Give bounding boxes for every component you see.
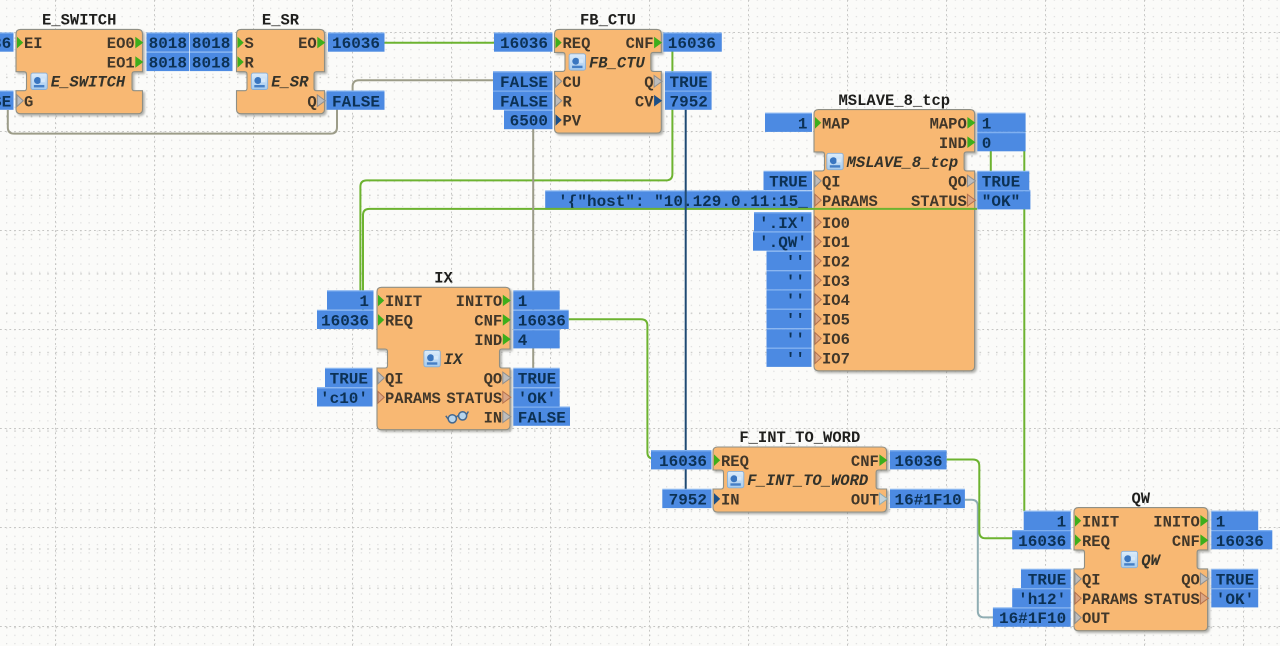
svg-text:IO4: IO4	[822, 292, 850, 310]
svg-text:REQ: REQ	[721, 453, 749, 471]
value label E_SR.Q = FALSE	[327, 91, 385, 111]
svg-text:1: 1	[982, 115, 992, 133]
input pin IO0 of MSLAVE_8_tcp	[815, 215, 850, 233]
value label MSLAVE_8_tcp.IO1 = '.QW'	[753, 232, 812, 252]
wire F_INT_TO_WORD.OUT to QW.OUT	[965, 500, 994, 618]
input pin MAP of MSLAVE_8_tcp	[815, 115, 850, 133]
svg-text:16036: 16036	[0, 35, 11, 53]
value label QW.QO = TRUE	[1211, 569, 1258, 589]
wire FB_CTU.CNF to IX.INIT	[360, 51, 672, 291]
svg-text:REQ: REQ	[563, 35, 591, 53]
svg-text:IO3: IO3	[822, 273, 850, 291]
svg-text:PARAMS: PARAMS	[385, 390, 441, 408]
input pin QI of QW	[1075, 572, 1101, 590]
value label MSLAVE_8_tcp.IO5 = ''	[767, 309, 812, 329]
wire FB_CTU.PV to IX.QO	[532, 129, 534, 369]
value label QW.STATUS = 'OK'	[1211, 589, 1258, 609]
value label QW.INITO = 1	[1211, 511, 1258, 531]
svg-text:G: G	[24, 93, 33, 111]
svg-text:INITO: INITO	[456, 293, 503, 311]
input pin G of E_SWITCH	[17, 93, 33, 111]
svg-text:IO2: IO2	[822, 254, 850, 272]
svg-text:E_SWITCH: E_SWITCH	[51, 74, 126, 92]
svg-text:R: R	[245, 55, 255, 73]
svg-text:FALSE: FALSE	[500, 74, 548, 92]
svg-text:'': ''	[786, 292, 805, 310]
svg-text:16#1F10: 16#1F10	[999, 610, 1066, 628]
svg-text:TRUE: TRUE	[330, 371, 368, 389]
value label QW.QI = TRUE	[1021, 569, 1071, 589]
wire E_SR.Q to E_SWITCH.G (down-left loop)	[8, 110, 337, 134]
output pin QO of QW	[1181, 572, 1208, 590]
svg-text:8018: 8018	[149, 35, 187, 53]
svg-text:QI: QI	[822, 174, 841, 192]
output pin CNF of QW	[1172, 533, 1209, 551]
svg-text:7952: 7952	[670, 93, 708, 111]
value label MSLAVE_8_tcp.IO0 = '.IX'	[754, 213, 812, 233]
value label QW.CNF = 16036	[1211, 531, 1272, 551]
value label MSLAVE_8_tcp.QI = TRUE	[764, 171, 813, 191]
wire MSLAVE.PARAMS net horizontal to IX.REQ	[363, 209, 977, 311]
input pin IO1 of MSLAVE_8_tcp	[815, 234, 850, 252]
input pin CU of FB_CTU	[556, 74, 582, 92]
svg-text:TRUE: TRUE	[518, 371, 556, 389]
value label MSLAVE_8_tcp.QO = TRUE	[977, 171, 1029, 191]
svg-text:16036: 16036	[668, 35, 716, 53]
input pin S of E_SR	[238, 35, 254, 53]
input pin PV of FB_CTU	[556, 113, 582, 131]
svg-text:STATUS: STATUS	[1144, 591, 1200, 609]
svg-text:7952: 7952	[669, 492, 707, 510]
svg-text:QI: QI	[385, 371, 404, 389]
input pin IO7 of MSLAVE_8_tcp	[815, 350, 850, 368]
function block QW	[1074, 490, 1208, 631]
svg-text:'c10': 'c10'	[320, 390, 368, 408]
output pin Q of E_SR	[307, 93, 325, 111]
value label MSLAVE_8_tcp.IO2 = ''	[767, 251, 812, 271]
svg-text:16036: 16036	[321, 313, 369, 331]
svg-text:16036: 16036	[1216, 533, 1264, 551]
input pin REQ of IX	[378, 313, 413, 331]
svg-text:CU: CU	[563, 74, 582, 92]
svg-text:'': ''	[786, 254, 805, 272]
value label MSLAVE_8_tcp.STATUS = "OK"	[977, 191, 1030, 211]
svg-text:1: 1	[359, 293, 369, 311]
value label IX.STATUS = 'OK'	[513, 388, 559, 408]
svg-text:EO0: EO0	[107, 35, 135, 53]
svg-text:TRUE: TRUE	[769, 174, 807, 192]
output pin INITO of QW	[1153, 513, 1208, 531]
svg-text:TRUE: TRUE	[982, 174, 1020, 192]
value label FB_CTU.PV = 6500	[504, 110, 553, 130]
svg-text:IO7: IO7	[822, 350, 850, 368]
input pin INIT of QW	[1075, 513, 1119, 531]
output pin EO1 of E_SWITCH	[107, 55, 144, 73]
svg-text:IO1: IO1	[822, 234, 850, 252]
value label E_SR.S = 8018	[190, 33, 233, 53]
wire E_SR.Q branch to FB_CTU.CU	[353, 80, 494, 92]
output pin CNF of F_INT_TO_WORD	[851, 453, 888, 471]
svg-text:TRUE: TRUE	[1028, 572, 1066, 590]
function block E_SWITCH	[16, 12, 143, 114]
input pin PARAMS of IX	[378, 390, 441, 408]
function block E_SR	[237, 12, 325, 114]
svg-text:'h12': 'h12'	[1018, 591, 1066, 609]
svg-text:E_SWITCH: E_SWITCH	[42, 12, 116, 30]
svg-text:OUT: OUT	[851, 492, 879, 510]
value label F_INT_TO_WORD.CNF = 16036	[890, 451, 947, 471]
output pin QO of IX	[484, 371, 511, 389]
svg-text:1: 1	[1216, 513, 1226, 531]
value label F_INT_TO_WORD.OUT = 16#1F10	[890, 489, 965, 509]
svg-text:F_INT_TO_WORD: F_INT_TO_WORD	[739, 429, 860, 447]
input pin IO2 of MSLAVE_8_tcp	[815, 254, 850, 272]
output pin OUT of F_INT_TO_WORD	[851, 492, 888, 510]
svg-text:INITO: INITO	[1153, 513, 1200, 531]
input pin R of FB_CTU	[556, 93, 573, 111]
output pin IN of IX	[484, 409, 511, 427]
value label MSLAVE_8_tcp.IO3 = ''	[767, 271, 812, 291]
svg-text:QO: QO	[948, 174, 967, 192]
svg-text:MAP: MAP	[822, 115, 850, 133]
output pin IND of IX	[474, 332, 511, 350]
svg-text:F_INT_TO_WORD: F_INT_TO_WORD	[747, 472, 869, 490]
wire IX.CNF to F_INT_TO_WORD.REQ	[569, 319, 656, 458]
value label IX.PARAMS = 'c10'	[317, 388, 373, 408]
svg-text:'': ''	[786, 312, 805, 330]
svg-text:R: R	[563, 93, 573, 111]
svg-text:REQ: REQ	[1082, 533, 1110, 551]
output pin STATUS of IX	[446, 390, 510, 408]
output pin STATUS of MSLAVE_8_tcp	[911, 193, 975, 211]
value label FB_CTU.R = FALSE	[493, 91, 553, 111]
value label MSLAVE_8_tcp.IND = 0	[977, 133, 1025, 153]
svg-text:MSLAVE_8_tcp: MSLAVE_8_tcp	[838, 92, 950, 110]
svg-text:OUT: OUT	[1082, 610, 1110, 628]
function block FB_CTU	[555, 12, 662, 134]
svg-text:S: S	[245, 35, 254, 53]
input pin PARAMS of MSLAVE_8_tcp	[815, 193, 878, 211]
wire FB_CTU.CV to F_INT_TO_WORD.IN	[685, 110, 687, 491]
svg-text:IN: IN	[484, 409, 503, 427]
svg-text:16036: 16036	[332, 35, 380, 53]
svg-text:16036: 16036	[1018, 533, 1066, 551]
value label E_SWITCH.EO0 = 8018	[147, 33, 190, 53]
input pin PARAMS of QW	[1075, 591, 1138, 609]
svg-text:PV: PV	[563, 113, 582, 131]
output pin CV of FB_CTU	[635, 93, 662, 111]
function block MSLAVE_8_tcp	[814, 92, 975, 371]
svg-text:CV: CV	[635, 93, 654, 111]
svg-text:'': ''	[786, 350, 805, 368]
value label E_SWITCH.EI = 16036	[0, 33, 14, 53]
output pin MAPO of MSLAVE_8_tcp	[930, 115, 976, 133]
input pin IO5 of MSLAVE_8_tcp	[815, 312, 850, 330]
svg-text:'.QW': '.QW'	[759, 234, 807, 252]
wire MSLAVE.IND stub	[990, 141, 992, 180]
input pin IN of F_INT_TO_WORD	[714, 492, 740, 510]
svg-text:16036: 16036	[518, 313, 566, 331]
value label MSLAVE_8_tcp.MAPO = 1	[977, 113, 1025, 133]
svg-text:'.IX': '.IX'	[759, 215, 807, 233]
output pin QO of MSLAVE_8_tcp	[948, 174, 975, 192]
svg-text:16#1F10: 16#1F10	[895, 492, 962, 510]
svg-text:8018: 8018	[192, 55, 230, 73]
svg-text:CNF: CNF	[626, 35, 654, 53]
input pin REQ of QW	[1075, 533, 1110, 551]
svg-text:QW: QW	[1141, 552, 1161, 570]
input pin IO3 of MSLAVE_8_tcp	[815, 273, 850, 291]
output pin IND of MSLAVE_8_tcp	[939, 135, 976, 153]
svg-text:STATUS: STATUS	[446, 390, 502, 408]
svg-text:IO6: IO6	[822, 331, 850, 349]
svg-text:IND: IND	[939, 135, 967, 153]
value label E_SWITCH.G = FALSE	[0, 91, 14, 111]
svg-text:6500: 6500	[510, 113, 548, 131]
value label IX.QI = TRUE	[325, 368, 373, 388]
svg-text:IND: IND	[474, 332, 502, 350]
svg-text:QO: QO	[1181, 572, 1200, 590]
value label IX.INITO = 1	[513, 291, 559, 311]
input pin IO4 of MSLAVE_8_tcp	[815, 292, 850, 310]
svg-text:16036: 16036	[895, 453, 943, 471]
svg-text:4: 4	[518, 332, 528, 350]
svg-text:"OK": "OK"	[982, 193, 1020, 211]
svg-text:16036: 16036	[500, 35, 548, 53]
svg-text:FALSE: FALSE	[518, 409, 566, 427]
value label F_INT_TO_WORD.IN = 7952	[662, 489, 711, 509]
svg-text:PARAMS: PARAMS	[1082, 591, 1138, 609]
input pin INIT of IX	[378, 293, 422, 311]
svg-text:CNF: CNF	[851, 453, 879, 471]
function block IX	[377, 270, 510, 430]
svg-text:QO: QO	[484, 371, 503, 389]
svg-text:IX: IX	[444, 351, 464, 369]
svg-text:1: 1	[1057, 513, 1067, 531]
svg-text:0: 0	[982, 135, 992, 153]
value label FB_CTU.CU = FALSE	[493, 72, 553, 92]
svg-text:'': ''	[786, 331, 805, 349]
value label IX.IN = FALSE	[513, 407, 570, 427]
function block F_INT_TO_WORD	[713, 429, 887, 512]
value label IX.CNF = 16036	[513, 310, 568, 330]
value label IX.REQ = 16036	[317, 310, 374, 330]
svg-text:1: 1	[798, 115, 808, 133]
output pin CNF of FB_CTU	[626, 35, 663, 53]
svg-text:'OK': 'OK'	[1216, 591, 1254, 609]
output pin STATUS of QW	[1144, 591, 1208, 609]
output pin INITO of IX	[456, 293, 511, 311]
svg-text:1: 1	[518, 293, 528, 311]
svg-text:FB_CTU: FB_CTU	[589, 54, 646, 72]
svg-text:8018: 8018	[149, 55, 187, 73]
svg-text:TRUE: TRUE	[670, 74, 708, 92]
value label E_SR.EO = 16036	[328, 33, 385, 53]
value label QW.PARAMS = 'h12'	[1012, 589, 1070, 609]
output pin CNF of IX	[474, 313, 511, 331]
value label F_INT_TO_WORD.REQ = 16036	[651, 451, 712, 471]
svg-text:CNF: CNF	[474, 313, 502, 331]
output pin EO of E_SR	[298, 35, 325, 53]
value label FB_CTU.Q = TRUE	[665, 72, 712, 92]
svg-text:REQ: REQ	[385, 313, 413, 331]
wire MSLAVE.STATUS to QW.INIT	[1023, 132, 1025, 512]
svg-text:EI: EI	[24, 35, 43, 53]
svg-text:TRUE: TRUE	[1216, 572, 1254, 590]
svg-text:PARAMS: PARAMS	[822, 193, 878, 211]
value label FB_CTU.CV = 7952	[665, 91, 712, 111]
svg-text:'OK': 'OK'	[518, 390, 556, 408]
svg-text:IO5: IO5	[822, 312, 850, 330]
svg-text:IO0: IO0	[822, 215, 850, 233]
value label MSLAVE_8_tcp.MAP = 1	[765, 113, 812, 133]
svg-text:MAPO: MAPO	[930, 115, 967, 133]
svg-text:E_SR: E_SR	[262, 12, 300, 30]
value label IX.IND = 4	[513, 330, 559, 350]
svg-text:INIT: INIT	[385, 293, 422, 311]
svg-text:8018: 8018	[192, 35, 230, 53]
wire E_SR.EO to FB_CTU.REQ	[385, 42, 495, 44]
svg-text:QW: QW	[1131, 490, 1150, 508]
output pin EO0 of E_SWITCH	[107, 35, 144, 53]
output pin Q of FB_CTU	[644, 74, 662, 92]
svg-text:QI: QI	[1082, 572, 1101, 590]
input pin QI of IX	[378, 371, 404, 389]
value label E_SR.R = 8018	[190, 52, 233, 72]
input pin QI of MSLAVE_8_tcp	[815, 174, 841, 192]
input pin REQ of FB_CTU	[556, 35, 591, 53]
svg-text:Q: Q	[644, 74, 653, 92]
svg-text:EO1: EO1	[107, 55, 135, 73]
wire F_INT_TO_WORD.CNF to QW.REQ	[947, 460, 1013, 539]
value label FB_CTU.REQ = 16036	[494, 33, 553, 53]
svg-text:16036: 16036	[659, 453, 707, 471]
input pin EI of E_SWITCH	[17, 35, 43, 53]
input pin R of E_SR	[238, 55, 255, 73]
svg-text:FALSE: FALSE	[500, 93, 548, 111]
svg-text:E_SR: E_SR	[271, 74, 309, 92]
svg-text:'': ''	[786, 273, 805, 291]
svg-text:FALSE: FALSE	[332, 93, 380, 111]
svg-text:IX: IX	[434, 270, 453, 288]
value label QW.REQ = 16036	[1012, 531, 1070, 551]
value label MSLAVE_8_tcp.PARAMS value	[545, 191, 812, 211]
input pin REQ of F_INT_TO_WORD	[714, 453, 749, 471]
svg-text:MSLAVE_8_tcp: MSLAVE_8_tcp	[846, 154, 959, 172]
value label MSLAVE_8_tcp.IO7 = ''	[767, 348, 812, 368]
svg-text:STATUS: STATUS	[911, 193, 967, 211]
value label E_SWITCH.EO1 = 8018	[147, 52, 190, 72]
svg-text:FALSE: FALSE	[0, 93, 11, 111]
value label IX.INIT = 1	[327, 291, 374, 311]
svg-text:Q: Q	[307, 93, 316, 111]
value label QW.INIT = 1	[1024, 511, 1071, 531]
value label FB_CTU.CNF = 16036	[663, 33, 722, 53]
value label QW.OUT = 16#1F10	[993, 608, 1071, 628]
svg-text:CNF: CNF	[1172, 533, 1200, 551]
svg-text:FB_CTU: FB_CTU	[580, 12, 636, 30]
value label IX.QO = TRUE	[513, 368, 559, 388]
svg-text:INIT: INIT	[1082, 513, 1119, 531]
svg-text:IN: IN	[721, 492, 740, 510]
input pin OUT of QW	[1075, 610, 1110, 628]
value label MSLAVE_8_tcp.IO4 = ''	[767, 290, 812, 310]
svg-text:EO: EO	[298, 35, 317, 53]
input pin IO6 of MSLAVE_8_tcp	[815, 331, 850, 349]
value label MSLAVE_8_tcp.IO6 = ''	[767, 329, 812, 349]
